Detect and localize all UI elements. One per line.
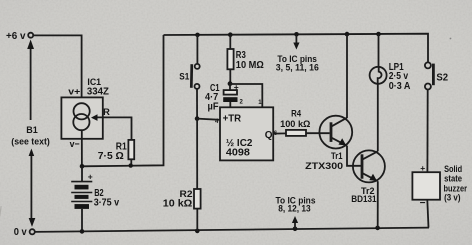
svg-text:µF: µF [208, 102, 219, 113]
wire S1 to trigger node [196, 89, 198, 119]
node IC-pins tap on bottom rail [293, 227, 298, 232]
Tr1 collector lead [331, 118, 347, 127]
svg-text:Solid: Solid [444, 164, 462, 174]
wire IC1 R pin to R1 with arrow [91, 114, 132, 140]
switch S1 [191, 64, 199, 89]
transistor Q2: Tr2 circle [353, 150, 385, 182]
wire node to IC2 pin 1 [230, 84, 262, 107]
battery B1 label [11, 125, 50, 147]
svg-text:10 kΩ: 10 kΩ [163, 199, 193, 210]
wire arrow tap to IC supply pins (bottom) [292, 216, 298, 229]
svg-text:3·75 v: 3·75 v [94, 198, 120, 209]
svg-text:7·5 Ω: 7·5 Ω [98, 151, 124, 162]
wire LP1 to Tr2 collector [377, 84, 379, 152]
node IC-pins tap on top rail [294, 32, 299, 37]
svg-text:4098: 4098 [226, 148, 250, 159]
node R3 on top rail [228, 32, 233, 37]
wire B2 top lead [81, 166, 83, 181]
svg-text:0 v: 0 v [14, 227, 27, 238]
label To IC pins 3,5,11,16 [276, 54, 319, 74]
node 0 v terminal [30, 229, 35, 234]
wire B2 bottom lead [81, 209, 83, 232]
svg-text:334Z: 334Z [87, 87, 109, 98]
wire node to C1 plus plate [229, 84, 231, 90]
wire B2-top node to top rail riser [82, 35, 164, 166]
svg-text:S2: S2 [436, 72, 448, 83]
C1 value label 4.7 uF [205, 92, 219, 113]
capacitor C1 plates [223, 90, 237, 102]
Tr2 emitter lead with arrow [362, 173, 378, 181]
buzzer name label [444, 164, 468, 203]
switch S2 [425, 62, 434, 89]
wire top rail to R3 [229, 35, 231, 49]
svg-text:+: + [88, 172, 93, 182]
node Tr2 emitter on bottom rail [375, 226, 380, 231]
svg-text:R: R [103, 107, 110, 118]
label To IC pins 8,12,13 [276, 196, 316, 215]
svg-text:10 MΩ: 10 MΩ [236, 60, 264, 71]
wire Tr1 emitter to Tr2 base [347, 146, 362, 166]
node R3/C1/pin1 junction [228, 81, 233, 86]
node R1 bottom junction [129, 163, 133, 167]
lamp LP1 [370, 67, 387, 84]
buzzer BZ1: solid state buzzer box [412, 172, 440, 200]
svg-text:v−: v− [70, 139, 80, 150]
wire Tr2 emitter to bottom rail [377, 181, 379, 228]
node R2 on bottom rail [195, 229, 200, 234]
Tr2 base bar [361, 154, 364, 178]
svg-text:R4: R4 [291, 108, 301, 118]
Tr2 collector lead [362, 151, 378, 159]
IC2 designator label [226, 138, 253, 158]
scan speck [450, 38, 452, 40]
wire R1 bottom lead [130, 159, 132, 165]
svg-text:Tr1: Tr1 [331, 151, 343, 161]
svg-text:100 kΩ: 100 kΩ [280, 119, 311, 130]
resistor R4 [286, 130, 306, 136]
svg-text:B1: B1 [26, 125, 38, 136]
node S1 on top rail [195, 33, 200, 38]
wire S2 to buzzer [426, 90, 428, 173]
svg-text:(see text): (see text) [11, 137, 50, 147]
IC1 reference designator label [87, 77, 109, 97]
svg-text:0·3 A: 0·3 A [389, 81, 411, 92]
wire IC2 Q pin to R4 [273, 132, 286, 134]
svg-text:v+: v+ [68, 86, 80, 97]
svg-text:Q: Q [265, 130, 273, 141]
battery B2 plates [71, 182, 92, 209]
op-amp U1: current regulator IC1 box [61, 97, 102, 138]
node Tr1 collector on top rail [345, 32, 350, 37]
svg-text:8, 12, 13: 8, 12, 13 [278, 203, 311, 214]
wire top supply rail [164, 34, 429, 63]
node +6 v terminal [28, 33, 33, 38]
wire bottom 0v rail [35, 228, 429, 232]
svg-text:ZTX300: ZTX300 [305, 161, 343, 172]
wire R2 to bottom rail [196, 209, 198, 231]
wire C1 to IC2 pin 2 [229, 102, 231, 107]
svg-text:+6 v: +6 v [6, 31, 26, 42]
IC1 current-source symbol circles [73, 103, 89, 130]
battery B1 lower arrow line [29, 149, 36, 227]
wire +6v terminal to IC1 v+ pin [33, 35, 81, 103]
resistor R1 [128, 140, 134, 159]
node trigger junction [195, 116, 200, 121]
Tr1 base bar [330, 122, 333, 142]
wire top rail to S1 [196, 35, 198, 64]
svg-text:(3 v): (3 v) [444, 193, 460, 203]
battery B1 upper arrow line [27, 40, 34, 121]
transistor Q1: Tr1 circle [319, 116, 352, 149]
wire R4 to Tr1 base [306, 132, 330, 134]
node B2 on bottom rail [80, 229, 85, 234]
IC U2: monostable IC2 box [220, 107, 273, 160]
svg-text:BD131: BD131 [351, 194, 377, 205]
wire Tr1 collector to top rail [346, 34, 348, 118]
wire trigger node to R2 [196, 119, 198, 189]
node IC1 v- / B2 junction [80, 164, 85, 169]
resistor R3 [227, 49, 233, 69]
Tr1 emitter lead with arrow [331, 137, 347, 145]
wire IC1 v- pin down [81, 130, 83, 166]
scan smudge [0, 206, 2, 216]
svg-text:3, 5, 11, 16: 3, 5, 11, 16 [276, 63, 319, 74]
resistor R2 [194, 189, 201, 209]
wire top rail to LP1 [378, 34, 380, 67]
svg-text:+TR: +TR [223, 113, 242, 125]
wire R3 to C1 node [229, 69, 231, 83]
svg-text:S1: S1 [179, 72, 190, 83]
wire arrow tap to IC supply pins (top) [293, 35, 299, 50]
node LP1 on top rail [376, 32, 381, 37]
wire buzzer to bottom rail [427, 200, 428, 228]
svg-text:state: state [444, 174, 462, 184]
svg-text:−: − [420, 198, 426, 209]
wire trigger node to IC2 pin 4 [197, 119, 220, 120]
